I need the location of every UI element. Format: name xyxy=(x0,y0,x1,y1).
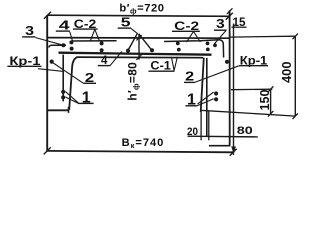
tick top of 400 dim xyxy=(293,33,299,39)
label 3 right underlined xyxy=(216,16,225,31)
tick right end of bottom dim line xyxy=(230,149,237,156)
leader 2 left xyxy=(53,63,84,84)
arrow at bottom of ext vertical xyxy=(232,147,236,152)
label 3 left underlined xyxy=(25,23,34,38)
right extension vertical line x=233.5 xyxy=(233,24,235,156)
tick top of h'f dim xyxy=(136,35,141,40)
leaders 1 left xyxy=(65,92,78,104)
label C-1 underlined xyxy=(150,59,171,73)
label Kr-1 right underlined xyxy=(240,55,268,67)
bottom dimension line Bk=740 xyxy=(47,151,233,152)
leader 4 mid xyxy=(110,52,122,66)
svg-text:3: 3 xyxy=(216,16,225,31)
leader 3 left xyxy=(35,38,61,45)
leaders 1 right xyxy=(197,92,213,106)
tick left end of top dim line xyxy=(44,12,51,19)
fork leader C-2 right xyxy=(187,31,201,42)
dim line 20/80 xyxy=(188,135,258,138)
dimension label Bk=740 xyxy=(122,137,165,150)
label 150 rotated xyxy=(257,90,272,111)
step extension line (bottom ref for 400/150 dims) xyxy=(201,110,296,116)
left rib inner face xyxy=(69,57,77,110)
extension vertical x=209 for 20/80 dim xyxy=(208,111,210,140)
dimension label b'f=720 xyxy=(119,2,164,15)
tick bottom of 400 dim xyxy=(293,113,299,119)
left outer edge of panel xyxy=(46,15,48,151)
label 1 left underlined xyxy=(82,90,91,107)
400 dim top extension bar xyxy=(230,35,295,38)
label 20 xyxy=(187,126,198,138)
leader Kr-1 left xyxy=(38,69,63,72)
tick bottom of 150 dim xyxy=(268,111,274,117)
frame Kr-1 left vertical line xyxy=(62,55,64,102)
mesh C-2 left segment xyxy=(49,41,117,48)
label 4 left underlined xyxy=(59,17,71,32)
label 4 mid underlined xyxy=(101,55,108,67)
rebar dots flange upper row xyxy=(61,40,217,47)
h'f=80 dim vertical xyxy=(138,34,140,60)
tick left end of bottom dim line xyxy=(44,147,51,154)
flange bottom face xyxy=(77,56,204,59)
svg-text:400: 400 xyxy=(280,61,294,83)
label C-2 left underlined xyxy=(74,17,97,31)
leader 3 right xyxy=(214,31,226,44)
svg-text:150: 150 xyxy=(257,90,272,111)
label 2 right underlined xyxy=(185,69,194,84)
V leader of C-1 xyxy=(171,57,177,71)
left rib break stub xyxy=(68,107,70,113)
150 dim top extension bar xyxy=(231,88,272,91)
top dimension line (b'f=720) xyxy=(48,15,230,16)
svg-text:2: 2 xyxy=(185,69,194,84)
fork leader C-2 left xyxy=(90,29,99,40)
label 5 underlined xyxy=(121,15,131,30)
tick top of 150 dim xyxy=(268,86,274,92)
svg-text:3: 3 xyxy=(25,23,34,38)
right rib inner face xyxy=(201,58,204,112)
svg-text:4: 4 xyxy=(59,17,71,32)
400 dim vertical xyxy=(294,36,296,116)
svg-text:b′ф=720: b′ф=720 xyxy=(119,2,164,15)
extension vertical x=201 for 20 dim xyxy=(200,112,202,141)
mesh C-2 right segment xyxy=(164,40,224,58)
svg-text:5: 5 xyxy=(121,15,131,30)
label Kr-1 left underlined xyxy=(9,56,41,68)
mesh C-1 line xyxy=(59,53,212,55)
leader 5 to fork xyxy=(131,28,138,33)
rebar dots flange lower row xyxy=(70,47,210,53)
left rib bottom face xyxy=(47,109,68,111)
svg-text:h′ф=80: h′ф=80 xyxy=(125,62,140,101)
label C-2 right underlined xyxy=(174,19,199,33)
svg-text:Bк=740: Bк=740 xyxy=(122,137,165,150)
tick bottom of h'f dim xyxy=(136,55,141,60)
right rib bottom face xyxy=(209,145,231,147)
label 1 right underlined xyxy=(187,92,196,109)
svg-text:80: 80 xyxy=(237,125,253,137)
leader 4 left xyxy=(70,32,73,42)
label 15 underlined xyxy=(233,17,247,29)
top face of flange xyxy=(47,37,229,40)
150 dim vertical xyxy=(270,89,272,114)
label h'f=80 rotated xyxy=(125,62,140,101)
label 400 rotated xyxy=(280,61,294,83)
label 2 left underlined xyxy=(85,70,94,85)
label 80 xyxy=(237,125,253,137)
long leader Kr-1 right to label 2 right xyxy=(194,66,239,83)
tick right end of top dim line xyxy=(226,13,233,20)
frame Kr-1 right vertical line xyxy=(206,58,208,137)
rebar dots in ribs xyxy=(50,60,229,102)
svg-text:20: 20 xyxy=(187,126,198,138)
right rib outer face xyxy=(229,10,231,145)
fork legs of 5 xyxy=(128,34,152,51)
tick top of 15 dim xyxy=(227,8,233,14)
svg-text:2: 2 xyxy=(85,70,94,85)
